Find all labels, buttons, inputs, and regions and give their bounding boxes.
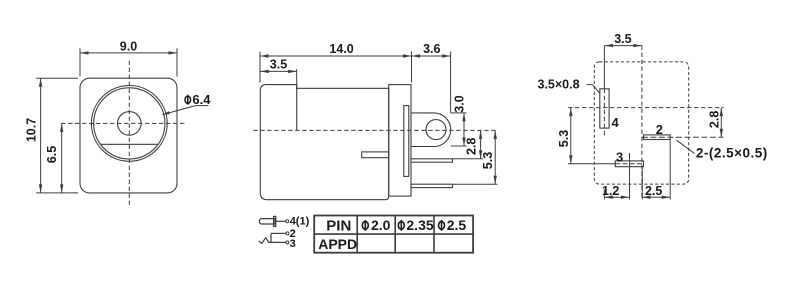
svg-text:9.0: 9.0 (120, 40, 137, 54)
side view left terminal tab (362, 152, 389, 158)
svg-text:6.4: 6.4 (192, 92, 211, 107)
pad 3 centerline ext (568, 163, 644, 165)
pad label 4 (612, 115, 620, 130)
svg-text:3: 3 (616, 149, 623, 164)
side view pin A (411, 159, 453, 162)
svg-text:2.0: 2.0 (371, 217, 391, 233)
label dia 6.4 (163, 92, 212, 115)
dimension 2.8 side (453, 130, 484, 158)
label 2-(2.5x0.5) (677, 140, 768, 160)
side horizontal centerline (253, 129, 498, 131)
pin symbol switch 2-3 (259, 232, 289, 244)
pad 3 center vertical (629, 153, 631, 200)
svg-text:10.7: 10.7 (24, 118, 38, 142)
side view pin B (411, 184, 453, 187)
footprint horizontal centerline (568, 107, 724, 109)
svg-text:1.2: 1.2 (602, 184, 619, 198)
label 3.5x0.8 (538, 78, 600, 94)
table grid (314, 216, 473, 253)
svg-text:3.5: 3.5 (614, 32, 631, 46)
pad 4 (600, 89, 609, 128)
dimension 3.5 footprint (604, 32, 642, 48)
svg-text:3.0: 3.0 (452, 95, 466, 112)
svg-text:5.3: 5.3 (481, 152, 495, 169)
svg-text:3.5×0.8: 3.5×0.8 (538, 78, 580, 92)
pad 4 centerline (603, 46, 605, 200)
dimension 10.7 left (24, 78, 78, 193)
svg-text:5.3: 5.3 (557, 130, 571, 147)
svg-text:APPD: APPD (318, 236, 357, 252)
front vertical centerline (128, 61, 130, 208)
svg-text:6.5: 6.5 (45, 146, 59, 163)
dimension 1.2 (602, 184, 629, 199)
side view bushing hole circle (426, 120, 446, 140)
pad label 2 (656, 122, 663, 137)
svg-text:3.5: 3.5 (270, 58, 287, 72)
table cell dia 2.35 (398, 217, 434, 233)
front view outer circle (91, 86, 167, 162)
side view body outline (260, 85, 388, 200)
svg-text:3.6: 3.6 (423, 42, 440, 56)
svg-text:4: 4 (612, 115, 620, 130)
svg-text:2.35: 2.35 (406, 217, 433, 233)
front view body outline (80, 78, 177, 193)
svg-text:2.8: 2.8 (464, 138, 478, 155)
dimension 2.5 (642, 184, 670, 199)
svg-text:4(1): 4(1) (290, 215, 310, 227)
dimension 3.0 (451, 95, 467, 146)
svg-text:2.8: 2.8 (707, 111, 721, 128)
pad label 3 (616, 149, 623, 164)
dimension 6.5 (45, 123, 64, 192)
front view inner circle (94, 88, 165, 159)
svg-text:2.5: 2.5 (645, 184, 662, 198)
svg-text:2: 2 (656, 122, 663, 137)
table cell APPD (318, 236, 357, 252)
pin symbol 3 label (290, 238, 296, 250)
pin symbol 4 (center pin) (259, 216, 288, 226)
side view bushing stadium (411, 113, 451, 147)
pin symbol 4 label (290, 215, 310, 227)
table cell dia 2.0 (362, 217, 390, 233)
dimension 9.0 top (80, 40, 177, 77)
svg-text:3: 3 (290, 238, 296, 250)
front view center pin hole (118, 112, 142, 136)
pin symbol 2 label (290, 228, 296, 240)
side view flange plate (389, 85, 411, 197)
svg-text:14.0: 14.0 (329, 42, 353, 56)
footprint vertical centerline (641, 46, 643, 200)
pad 3 (615, 161, 643, 167)
front view chord flat (101, 143, 158, 145)
dimension 14.0 (260, 42, 412, 83)
dimension 3.5 side (260, 58, 296, 85)
front horizontal centerline (61, 122, 187, 124)
side view narrow tab (404, 106, 409, 177)
pad 3 right edge ext (641, 167, 643, 200)
side view step line (296, 85, 298, 131)
dimension 5.3 footprint (557, 108, 573, 164)
table cell dia 2.5 (439, 217, 467, 233)
dimension 2.8 footprint (707, 108, 723, 138)
table cell PIN (326, 217, 351, 234)
pad 2 right edge ext (669, 140, 671, 200)
pad 2 centerline ext (642, 136, 724, 138)
dimension 3.6 (412, 42, 451, 113)
dimension 5.3 side (453, 130, 498, 184)
svg-text:2-(2.5×0.5): 2-(2.5×0.5) (696, 146, 768, 161)
svg-text:PIN: PIN (326, 217, 351, 234)
pad 2 (644, 135, 671, 140)
svg-text:2.5: 2.5 (447, 217, 467, 233)
footprint dashed outline (594, 62, 688, 184)
